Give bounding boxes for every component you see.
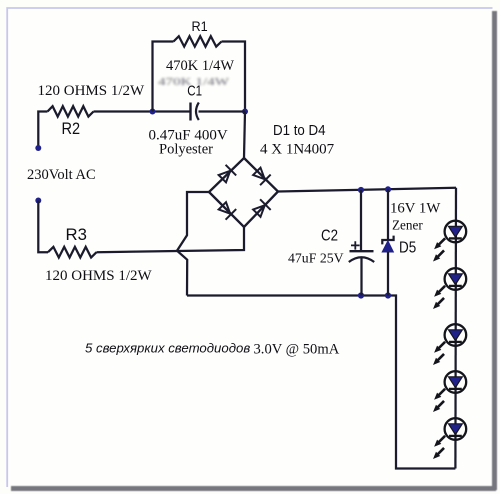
diode D (bridge bottom-right): [252, 199, 271, 218]
resistor R1: [174, 36, 222, 46]
wire (LED chain): [454, 188, 457, 469]
svg-text:R2: R2: [62, 120, 81, 138]
wire: [199, 110, 246, 112]
wire (R3 to bridge bottom): [97, 227, 245, 252]
LED 5: [431, 418, 466, 461]
wire (R1 branch left): [153, 42, 174, 112]
svg-text:470K 1/4W: 470K 1/4W: [166, 58, 234, 74]
svg-text:3.0V @ 50mA: 3.0V @ 50mA: [254, 342, 340, 358]
wire (to bridge top): [244, 112, 245, 159]
node (zener top): [385, 186, 391, 192]
svg-text:D5: D5: [399, 240, 416, 257]
wire: [38, 112, 47, 147]
diode D (bridge bottom-left): [217, 201, 236, 220]
svg-text:120 OHMS 1/2W: 120 OHMS 1/2W: [38, 83, 146, 99]
svg-text:D1 to D4: D1 to D4: [273, 123, 326, 139]
diode D (bridge top-right): [252, 166, 271, 185]
svg-text:16V 1W: 16V 1W: [390, 201, 440, 217]
svg-text:47uF 25V: 47uF 25V: [288, 251, 344, 266]
terminal dot (AC line 2): [35, 198, 41, 204]
wire (bottom rail): [187, 296, 455, 469]
svg-text:R3: R3: [66, 226, 87, 244]
svg-text:R1: R1: [192, 19, 208, 35]
resistor R2: [48, 106, 94, 116]
wire (R1 branch right): [222, 42, 246, 112]
wire (bridge minus with crossover jog): [177, 192, 209, 296]
diode bridge D1-D4 diamond: [209, 158, 278, 227]
wire: [94, 110, 191, 112]
node (C2 bottom): [358, 292, 364, 298]
node junction (C1/R1/bridge top): [242, 109, 248, 115]
LED 2: [431, 268, 466, 311]
capacitor C2: [349, 190, 374, 296]
svg-text:Polyester: Polyester: [159, 142, 213, 158]
node junction (R2/C1/R1): [150, 109, 156, 115]
node (C2 top): [358, 187, 364, 193]
svg-text:C2: C2: [321, 228, 338, 245]
diode D (bridge top-left): [217, 165, 236, 184]
LED 4: [431, 371, 466, 414]
svg-text:120 OHMS 1/2W: 120 OHMS 1/2W: [45, 268, 153, 284]
node (zener bottom): [385, 292, 391, 298]
capacitor C1: [191, 103, 199, 121]
svg-text:Zener: Zener: [392, 218, 423, 233]
terminal dot (AC line 1): [35, 145, 41, 151]
svg-text:C1: C1: [187, 84, 202, 100]
svg-text:4 X 1N4007: 4 X 1N4007: [260, 142, 335, 158]
wire (top rail): [278, 188, 456, 192]
zener diode D5: [382, 189, 393, 295]
svg-text:230Volt AC: 230Volt AC: [27, 167, 96, 183]
LED 1: [431, 221, 466, 264]
svg-text:5 сверхярких светодиодов: 5 сверхярких светодиодов: [85, 341, 250, 356]
wire: [38, 201, 48, 253]
LED 3: [431, 324, 466, 367]
resistor R3: [48, 247, 97, 258]
